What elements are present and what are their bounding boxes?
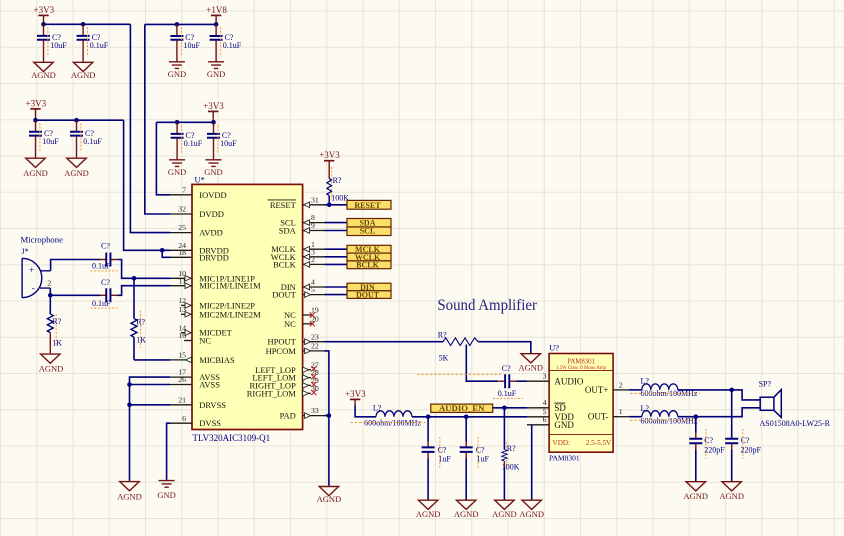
pin 3 AUDIO bbox=[527, 372, 584, 387]
svg-text:PAM8301: PAM8301 bbox=[549, 454, 580, 463]
junction bbox=[48, 293, 53, 298]
pin 13 MIC2M/LINE2M bbox=[178, 305, 261, 319]
wire AVSS pin17 bbox=[130, 377, 171, 481]
svg-text:R?: R? bbox=[333, 176, 342, 185]
junction bbox=[81, 22, 86, 27]
ground AGND (C 1uF b) bbox=[454, 500, 479, 519]
wire HPCOM down bbox=[325, 351, 329, 416]
svg-text:10uF: 10uF bbox=[184, 41, 201, 50]
svg-text:AGND: AGND bbox=[64, 168, 89, 178]
port DOUT bbox=[347, 291, 391, 300]
pin 17 AVSS bbox=[170, 368, 220, 382]
ground AGND (C1) bbox=[23, 158, 48, 178]
svg-text:23: 23 bbox=[311, 332, 319, 341]
op-amp U* body bbox=[192, 174, 303, 443]
junction bbox=[132, 276, 137, 281]
svg-text:+3V3: +3V3 bbox=[34, 5, 55, 15]
svg-text:6: 6 bbox=[182, 414, 186, 423]
wire +3V3 A rail bbox=[44, 23, 131, 25]
capacitor C? 0.1uF (C2) bbox=[70, 120, 102, 157]
junction bbox=[175, 120, 180, 125]
svg-text:26: 26 bbox=[178, 375, 186, 384]
wire cap to MIC1P bbox=[117, 260, 170, 279]
pin 22 HPCOM bbox=[266, 342, 325, 356]
pin 14 MICDET bbox=[178, 323, 232, 337]
ground GND (B1) bbox=[168, 62, 186, 79]
svg-text:R?: R? bbox=[438, 330, 447, 339]
junction bbox=[41, 22, 46, 27]
svg-text:5K: 5K bbox=[439, 354, 449, 363]
svg-text:0.1uF: 0.1uF bbox=[92, 262, 111, 271]
pin 21 DRVSS bbox=[170, 395, 226, 409]
svg-text:600ohm/100MHz: 600ohm/100MHz bbox=[641, 416, 698, 425]
capacitor C? 0.1uF (mic+) bbox=[91, 241, 118, 271]
svg-text:10uF: 10uF bbox=[50, 41, 67, 50]
svg-text:C?: C? bbox=[704, 436, 713, 445]
svg-text:AGND: AGND bbox=[39, 363, 64, 373]
svg-text:GND: GND bbox=[207, 69, 225, 79]
svg-text:0.1uF: 0.1uF bbox=[498, 389, 517, 398]
svg-text:32: 32 bbox=[178, 205, 186, 214]
svg-text:0.1uF: 0.1uF bbox=[83, 137, 102, 146]
wire BCLK net bbox=[325, 263, 348, 265]
pin 10 MIC1P/LINE1P bbox=[170, 269, 255, 283]
svg-text:+3V3: +3V3 bbox=[319, 150, 340, 160]
svg-text:AGND: AGND bbox=[719, 491, 744, 501]
wire DRVDD pin18 branch bbox=[162, 250, 170, 257]
svg-text:2: 2 bbox=[619, 380, 623, 389]
svg-text:22: 22 bbox=[311, 342, 319, 351]
pin 2 BCLK bbox=[273, 255, 324, 269]
ground AGND (HP load) bbox=[519, 354, 544, 373]
svg-text:1K: 1K bbox=[136, 336, 146, 345]
svg-text:12: 12 bbox=[178, 296, 186, 305]
wire mic minus bbox=[50, 288, 100, 295]
svg-text:3: 3 bbox=[543, 372, 547, 381]
svg-text:GND: GND bbox=[168, 167, 186, 177]
svg-text:2: 2 bbox=[311, 255, 315, 264]
svg-text:33: 33 bbox=[311, 406, 319, 415]
junction bbox=[327, 203, 332, 208]
junction bbox=[694, 414, 699, 419]
svg-text:R?: R? bbox=[136, 317, 145, 326]
svg-text:-: - bbox=[32, 284, 35, 294]
svg-text:SP?: SP? bbox=[759, 379, 772, 388]
svg-text:+1V8: +1V8 bbox=[206, 5, 227, 15]
svg-text:U*: U* bbox=[195, 174, 205, 184]
power +3V3 (amp) bbox=[345, 389, 366, 406]
svg-text:AVDD: AVDD bbox=[199, 228, 222, 238]
op-amp U? PAM8301 body bbox=[549, 343, 613, 463]
wire RESET net bbox=[325, 204, 348, 206]
svg-text:1: 1 bbox=[619, 407, 623, 416]
wire +3V3 to L bbox=[355, 406, 376, 417]
junction bbox=[327, 413, 332, 418]
svg-text:OUT+: OUT+ bbox=[585, 385, 609, 395]
ground AGND (amp gnd) bbox=[519, 500, 544, 519]
svg-text:1uF: 1uF bbox=[477, 455, 490, 464]
error squiggle bbox=[417, 373, 502, 375]
svg-text:Microphone: Microphone bbox=[21, 235, 64, 245]
svg-text:15: 15 bbox=[178, 351, 186, 360]
pin 6 DVSS bbox=[170, 414, 221, 428]
junction bbox=[502, 406, 507, 411]
wire OUT+ bbox=[629, 389, 642, 391]
pin 28 LEFT_LOM bbox=[252, 368, 319, 382]
wire HP tap down bbox=[466, 345, 498, 382]
wire +3V3 D to IOVDD bbox=[156, 122, 170, 195]
svg-text:2.5-5.5V: 2.5-5.5V bbox=[586, 439, 612, 447]
wire +1V8 to DVDD bbox=[145, 24, 170, 214]
ground AGND (220pF a) bbox=[684, 482, 709, 501]
svg-text:AGND: AGND bbox=[416, 509, 441, 519]
svg-text:220pF: 220pF bbox=[741, 446, 762, 455]
pin 11 MIC1M/LINE1M bbox=[170, 276, 261, 290]
svg-text:220pF: 220pF bbox=[704, 446, 725, 455]
svg-text:DVDD: DVDD bbox=[199, 209, 224, 219]
pin 19 NC right bbox=[284, 306, 319, 320]
svg-text:DVSS: DVSS bbox=[199, 418, 221, 428]
pin 12 MIC2P/LINE2P bbox=[178, 296, 255, 310]
power +3V3 (A) bbox=[34, 5, 55, 24]
junction bbox=[729, 388, 734, 393]
svg-text:DOUT: DOUT bbox=[272, 290, 296, 300]
pin 20 NC right bbox=[284, 314, 319, 328]
capacitor C? 220pF (OUT+) bbox=[725, 390, 761, 481]
ground AGND (C 1uF a) bbox=[416, 500, 441, 519]
svg-text:RESET: RESET bbox=[354, 201, 381, 210]
pin 7 IOVDD bbox=[170, 185, 227, 199]
svg-text:AGND: AGND bbox=[31, 70, 56, 80]
pin 1 OUT- bbox=[588, 407, 629, 422]
port SCL bbox=[347, 226, 391, 235]
wire DOUT net bbox=[325, 294, 348, 296]
wire +3V3 A to AVDD bbox=[130, 24, 170, 232]
wire +3V3 C rail bbox=[36, 119, 124, 121]
svg-text:AGND: AGND bbox=[71, 70, 96, 80]
svg-text:13: 13 bbox=[178, 305, 186, 314]
inductor L? 600ohm (OUT-) bbox=[630, 404, 700, 426]
svg-text:L?: L? bbox=[641, 404, 650, 413]
svg-text:+3V3: +3V3 bbox=[345, 389, 366, 399]
pin 3 WCLK bbox=[271, 247, 325, 261]
svg-text:+3V3: +3V3 bbox=[26, 98, 47, 108]
svg-text:C?: C? bbox=[101, 278, 110, 287]
resistor R? 100K (SD pulldown) bbox=[502, 408, 520, 500]
svg-text:20: 20 bbox=[311, 314, 319, 323]
svg-text:21: 21 bbox=[178, 395, 186, 404]
svg-text:9: 9 bbox=[311, 221, 315, 230]
svg-text:16: 16 bbox=[178, 331, 186, 340]
port RESET bbox=[347, 200, 391, 209]
svg-text:AUDIO_EN: AUDIO_EN bbox=[439, 403, 485, 413]
ground AGND (R pulldown) bbox=[492, 500, 517, 519]
svg-text:C?: C? bbox=[476, 445, 485, 454]
svg-text:DOUT: DOUT bbox=[356, 291, 380, 300]
svg-text:10uF: 10uF bbox=[42, 137, 59, 146]
svg-text:AGND: AGND bbox=[492, 509, 517, 519]
capacitor C? 0.1uF (A2) bbox=[77, 24, 109, 61]
port BCLK bbox=[347, 260, 391, 269]
resistor R? 5K bbox=[438, 330, 478, 362]
port MCLK bbox=[347, 245, 391, 254]
junction bbox=[214, 22, 219, 27]
svg-text:GND: GND bbox=[157, 490, 175, 500]
junction DRVDD branch bbox=[160, 248, 165, 253]
pin 16 NC left bbox=[178, 331, 211, 345]
pin 30 RIGHT_LOM bbox=[247, 384, 319, 398]
ground GND (D1) bbox=[168, 160, 186, 177]
svg-text:GND: GND bbox=[204, 167, 222, 177]
junction bbox=[464, 415, 469, 420]
pin 25 AVDD bbox=[170, 223, 223, 237]
power +3V3 (RESET) bbox=[319, 150, 340, 178]
wire MCLK net bbox=[325, 248, 348, 250]
svg-text:18: 18 bbox=[178, 248, 186, 257]
pin 31 RESET bbox=[268, 195, 325, 209]
wire L to VDD pin bbox=[412, 416, 527, 418]
svg-text:0.1uF: 0.1uF bbox=[223, 41, 242, 50]
svg-text:AGND: AGND bbox=[317, 494, 342, 504]
svg-text:AGND: AGND bbox=[519, 363, 544, 373]
ground GND (DVSS) bbox=[157, 481, 175, 500]
pin 9 SDA bbox=[279, 221, 325, 235]
svg-text:C?: C? bbox=[502, 364, 511, 373]
pin 15 MICBIAS bbox=[170, 351, 235, 365]
wire R to AGND bbox=[478, 342, 531, 353]
svg-text:30: 30 bbox=[311, 384, 319, 393]
svg-text:31: 31 bbox=[311, 195, 319, 204]
svg-text:MIC1M/LINE1M: MIC1M/LINE1M bbox=[199, 281, 261, 291]
svg-text:DRVSS: DRVSS bbox=[199, 400, 226, 410]
capacitor C? 0.1uF (D1) bbox=[171, 122, 203, 159]
svg-text:7: 7 bbox=[182, 185, 186, 194]
wire OUT- bbox=[629, 416, 642, 418]
capacitor C? 1uF (VDD a) bbox=[422, 417, 452, 500]
pin 1 MCLK bbox=[271, 240, 324, 254]
svg-text:J*: J* bbox=[22, 247, 29, 256]
svg-text:L?: L? bbox=[373, 404, 382, 413]
ground AGND (A1) bbox=[31, 62, 56, 80]
ground GND (B2) bbox=[207, 62, 225, 79]
svg-text:100K: 100K bbox=[502, 462, 520, 471]
connector J* microphone bbox=[22, 247, 52, 298]
svg-text:6: 6 bbox=[543, 415, 547, 424]
svg-text:AVSS: AVSS bbox=[199, 380, 220, 390]
pin 33 PAD bbox=[280, 406, 325, 420]
pin 8 SCL bbox=[280, 213, 324, 227]
svg-text:U?: U? bbox=[549, 343, 559, 353]
wire HPOUT bbox=[325, 341, 444, 343]
capacitor C? 1uF (VDD b) bbox=[460, 417, 490, 500]
pin 29 RIGHT_LOP bbox=[250, 376, 319, 390]
svg-text:GND: GND bbox=[168, 69, 186, 79]
svg-text:MICBIAS: MICBIAS bbox=[199, 355, 235, 365]
pin 4 DIN bbox=[281, 278, 325, 292]
junction bbox=[74, 118, 79, 123]
wire cap to MIC1M bbox=[117, 286, 170, 296]
svg-text:SCL: SCL bbox=[360, 226, 376, 235]
speaker SP? AS01508A0-LW25-R bbox=[759, 379, 831, 428]
node Microphone label bbox=[21, 235, 64, 245]
ground AGND (C2) bbox=[64, 158, 89, 178]
svg-text:MIC2M/LINE2M: MIC2M/LINE2M bbox=[199, 309, 261, 319]
ground AGND (PAD) bbox=[317, 487, 342, 505]
node Sound Amplifier title bbox=[437, 297, 537, 314]
power +3V3 (D) bbox=[203, 101, 224, 122]
svg-text:AS01508A0-LW25-R: AS01508A0-LW25-R bbox=[760, 419, 831, 428]
svg-text:DRVDD: DRVDD bbox=[199, 252, 229, 262]
capacitor C? 0.1uF (B2) bbox=[210, 24, 242, 61]
resistor R? 1K (micbias) bbox=[131, 278, 146, 360]
wire cap to AUDIO bbox=[516, 380, 527, 382]
wire +3V3 D rail bbox=[156, 121, 213, 123]
junction bbox=[426, 415, 431, 420]
svg-text:5: 5 bbox=[311, 285, 315, 294]
capacitor C? 0.1uF (mic-) bbox=[91, 278, 118, 308]
wire L to SP+ bbox=[678, 390, 760, 400]
port WCLK bbox=[347, 253, 391, 262]
svg-text:VDD:: VDD: bbox=[553, 439, 571, 447]
port DIN bbox=[347, 283, 391, 292]
capacitor C? 10uF (B1) bbox=[170, 24, 200, 61]
ground GND (D2) bbox=[204, 160, 222, 177]
junction bbox=[175, 22, 180, 27]
wire DIN net bbox=[325, 286, 348, 288]
pin 24 DRVDD bbox=[170, 241, 229, 255]
pin 5 DOUT bbox=[272, 285, 324, 299]
svg-text:NC: NC bbox=[199, 336, 211, 346]
wire AVSS pin26 bbox=[130, 384, 171, 386]
pin 23 HPOUT bbox=[267, 332, 324, 346]
svg-text:600ohm/100MHz: 600ohm/100MHz bbox=[364, 419, 421, 428]
pin 27 LEFT_LOP bbox=[255, 360, 319, 374]
svg-text:HPCOM: HPCOM bbox=[266, 346, 297, 356]
pin 18 DRVDD bbox=[170, 248, 229, 262]
resistor R? 1K (mic-) bbox=[47, 295, 62, 353]
junction bbox=[33, 118, 38, 123]
svg-text:1K: 1K bbox=[52, 339, 62, 348]
svg-text:BCLK: BCLK bbox=[356, 260, 379, 269]
capacitor C? 0.1uF (HP) bbox=[493, 364, 523, 398]
power +1V8 bbox=[206, 5, 227, 25]
ground AGND (mic) bbox=[39, 354, 64, 373]
wire L to SP- bbox=[678, 408, 760, 417]
svg-text:Sound Amplifier: Sound Amplifier bbox=[437, 297, 537, 314]
junction bbox=[127, 403, 132, 408]
pin 6 GND bbox=[527, 415, 574, 430]
capacitor C? 10uF (D2) bbox=[207, 122, 237, 159]
svg-text:GND: GND bbox=[554, 420, 574, 430]
svg-text:10uF: 10uF bbox=[220, 139, 237, 148]
ground AGND (A2) bbox=[71, 62, 96, 80]
svg-text:TLV320AIC3109-Q1: TLV320AIC3109-Q1 bbox=[193, 433, 271, 443]
svg-text:RESET: RESET bbox=[270, 200, 297, 210]
svg-text:AGND: AGND bbox=[684, 491, 709, 501]
svg-text:AGND: AGND bbox=[117, 492, 142, 502]
svg-text:C?: C? bbox=[438, 445, 447, 454]
capacitor C? 10uF (A1) bbox=[37, 24, 67, 61]
svg-text:1uF: 1uF bbox=[438, 455, 451, 464]
svg-text:+3V3: +3V3 bbox=[203, 101, 224, 111]
svg-text:4: 4 bbox=[543, 398, 547, 407]
wire +3V3 C to DRVDD bbox=[124, 120, 170, 250]
power +3V3 (C) bbox=[26, 98, 47, 120]
svg-text:+: + bbox=[29, 266, 34, 276]
svg-text:OUT-: OUT- bbox=[588, 412, 609, 422]
svg-text:R?: R? bbox=[52, 317, 61, 326]
svg-text:AGND: AGND bbox=[23, 168, 48, 178]
wire DVSS pin6 bbox=[167, 423, 170, 480]
svg-text:0.1uF: 0.1uF bbox=[90, 41, 109, 50]
wire SCL net bbox=[325, 230, 348, 232]
svg-text:11: 11 bbox=[178, 276, 186, 285]
svg-text:25: 25 bbox=[178, 223, 186, 232]
capacitor C? 10uF (C1) bbox=[29, 120, 59, 157]
svg-text:AGND: AGND bbox=[519, 509, 544, 519]
svg-text:L?: L? bbox=[641, 376, 650, 385]
resistor R? 100K (RESET) bbox=[327, 167, 349, 205]
capacitor C? 220pF (OUT-) bbox=[689, 417, 725, 481]
junction bbox=[211, 120, 216, 125]
port SDA bbox=[347, 219, 391, 228]
wire mic plus bbox=[51, 260, 100, 271]
pin 2 OUT+ bbox=[585, 380, 629, 395]
junction bbox=[127, 382, 132, 387]
svg-text:RIGHT_LOM: RIGHT_LOM bbox=[247, 388, 297, 398]
svg-text:C?: C? bbox=[741, 436, 750, 445]
wire MICBIAS bbox=[134, 359, 170, 361]
pin 26 AVSS bbox=[170, 375, 220, 389]
wire AUDIO_EN to SD bbox=[493, 407, 527, 409]
wire GND pin to ground bbox=[531, 425, 533, 500]
pin 32 DVDD bbox=[170, 205, 224, 219]
svg-text:2: 2 bbox=[47, 279, 51, 288]
svg-text:C?: C? bbox=[101, 241, 110, 250]
port AUDIO_EN bbox=[431, 403, 493, 413]
wire DRVSS pin21 bbox=[130, 404, 171, 406]
wire SDA net bbox=[325, 222, 348, 224]
wire WCLK net bbox=[325, 256, 348, 258]
pin 4 SD bbox=[527, 398, 566, 413]
svg-text:AGND: AGND bbox=[454, 509, 479, 519]
svg-text:PAM8301: PAM8301 bbox=[567, 358, 595, 365]
svg-text:AUDIO: AUDIO bbox=[554, 376, 583, 386]
ground AGND (AVSS) bbox=[117, 482, 142, 502]
svg-text:19: 19 bbox=[311, 306, 319, 315]
inductor L? 600ohm (OUT+) bbox=[630, 376, 700, 398]
svg-text:PAD: PAD bbox=[280, 411, 296, 421]
pin 5 VDD bbox=[527, 407, 574, 422]
wire +1V8 rail bbox=[145, 23, 216, 25]
svg-text:0.1uF: 0.1uF bbox=[184, 139, 203, 148]
svg-text:0.1uF: 0.1uF bbox=[92, 299, 111, 308]
svg-text:IOVDD: IOVDD bbox=[199, 190, 226, 200]
inductor L? 600ohm (VDD) bbox=[350, 404, 425, 428]
svg-text:SDA: SDA bbox=[279, 226, 297, 236]
svg-text:BCLK: BCLK bbox=[273, 259, 297, 269]
svg-text:NC: NC bbox=[284, 319, 296, 329]
svg-text:R?: R? bbox=[507, 444, 516, 453]
wire PAD to ground bbox=[325, 416, 329, 486]
ground AGND (220pF b) bbox=[719, 482, 744, 501]
